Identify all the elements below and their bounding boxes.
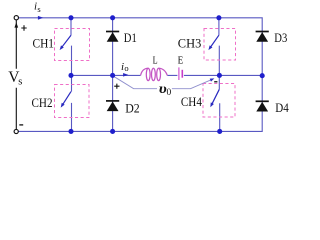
svg-text:s: s xyxy=(18,77,22,88)
svg-text:CH2: CH2 xyxy=(32,95,53,110)
svg-text:D2: D2 xyxy=(125,100,140,115)
svg-text:D1: D1 xyxy=(124,30,137,45)
svg-text:CH4: CH4 xyxy=(181,94,202,109)
svg-text:D4: D4 xyxy=(275,100,289,115)
svg-text:CH1: CH1 xyxy=(33,36,55,51)
svg-text:o: o xyxy=(124,63,128,73)
svg-text:E: E xyxy=(178,55,184,67)
svg-text:D3: D3 xyxy=(274,30,287,45)
svg-text:s: s xyxy=(37,4,40,14)
svg-text:CH3: CH3 xyxy=(178,35,202,50)
svg-text:L: L xyxy=(153,55,158,67)
svg-text:0: 0 xyxy=(167,88,172,98)
